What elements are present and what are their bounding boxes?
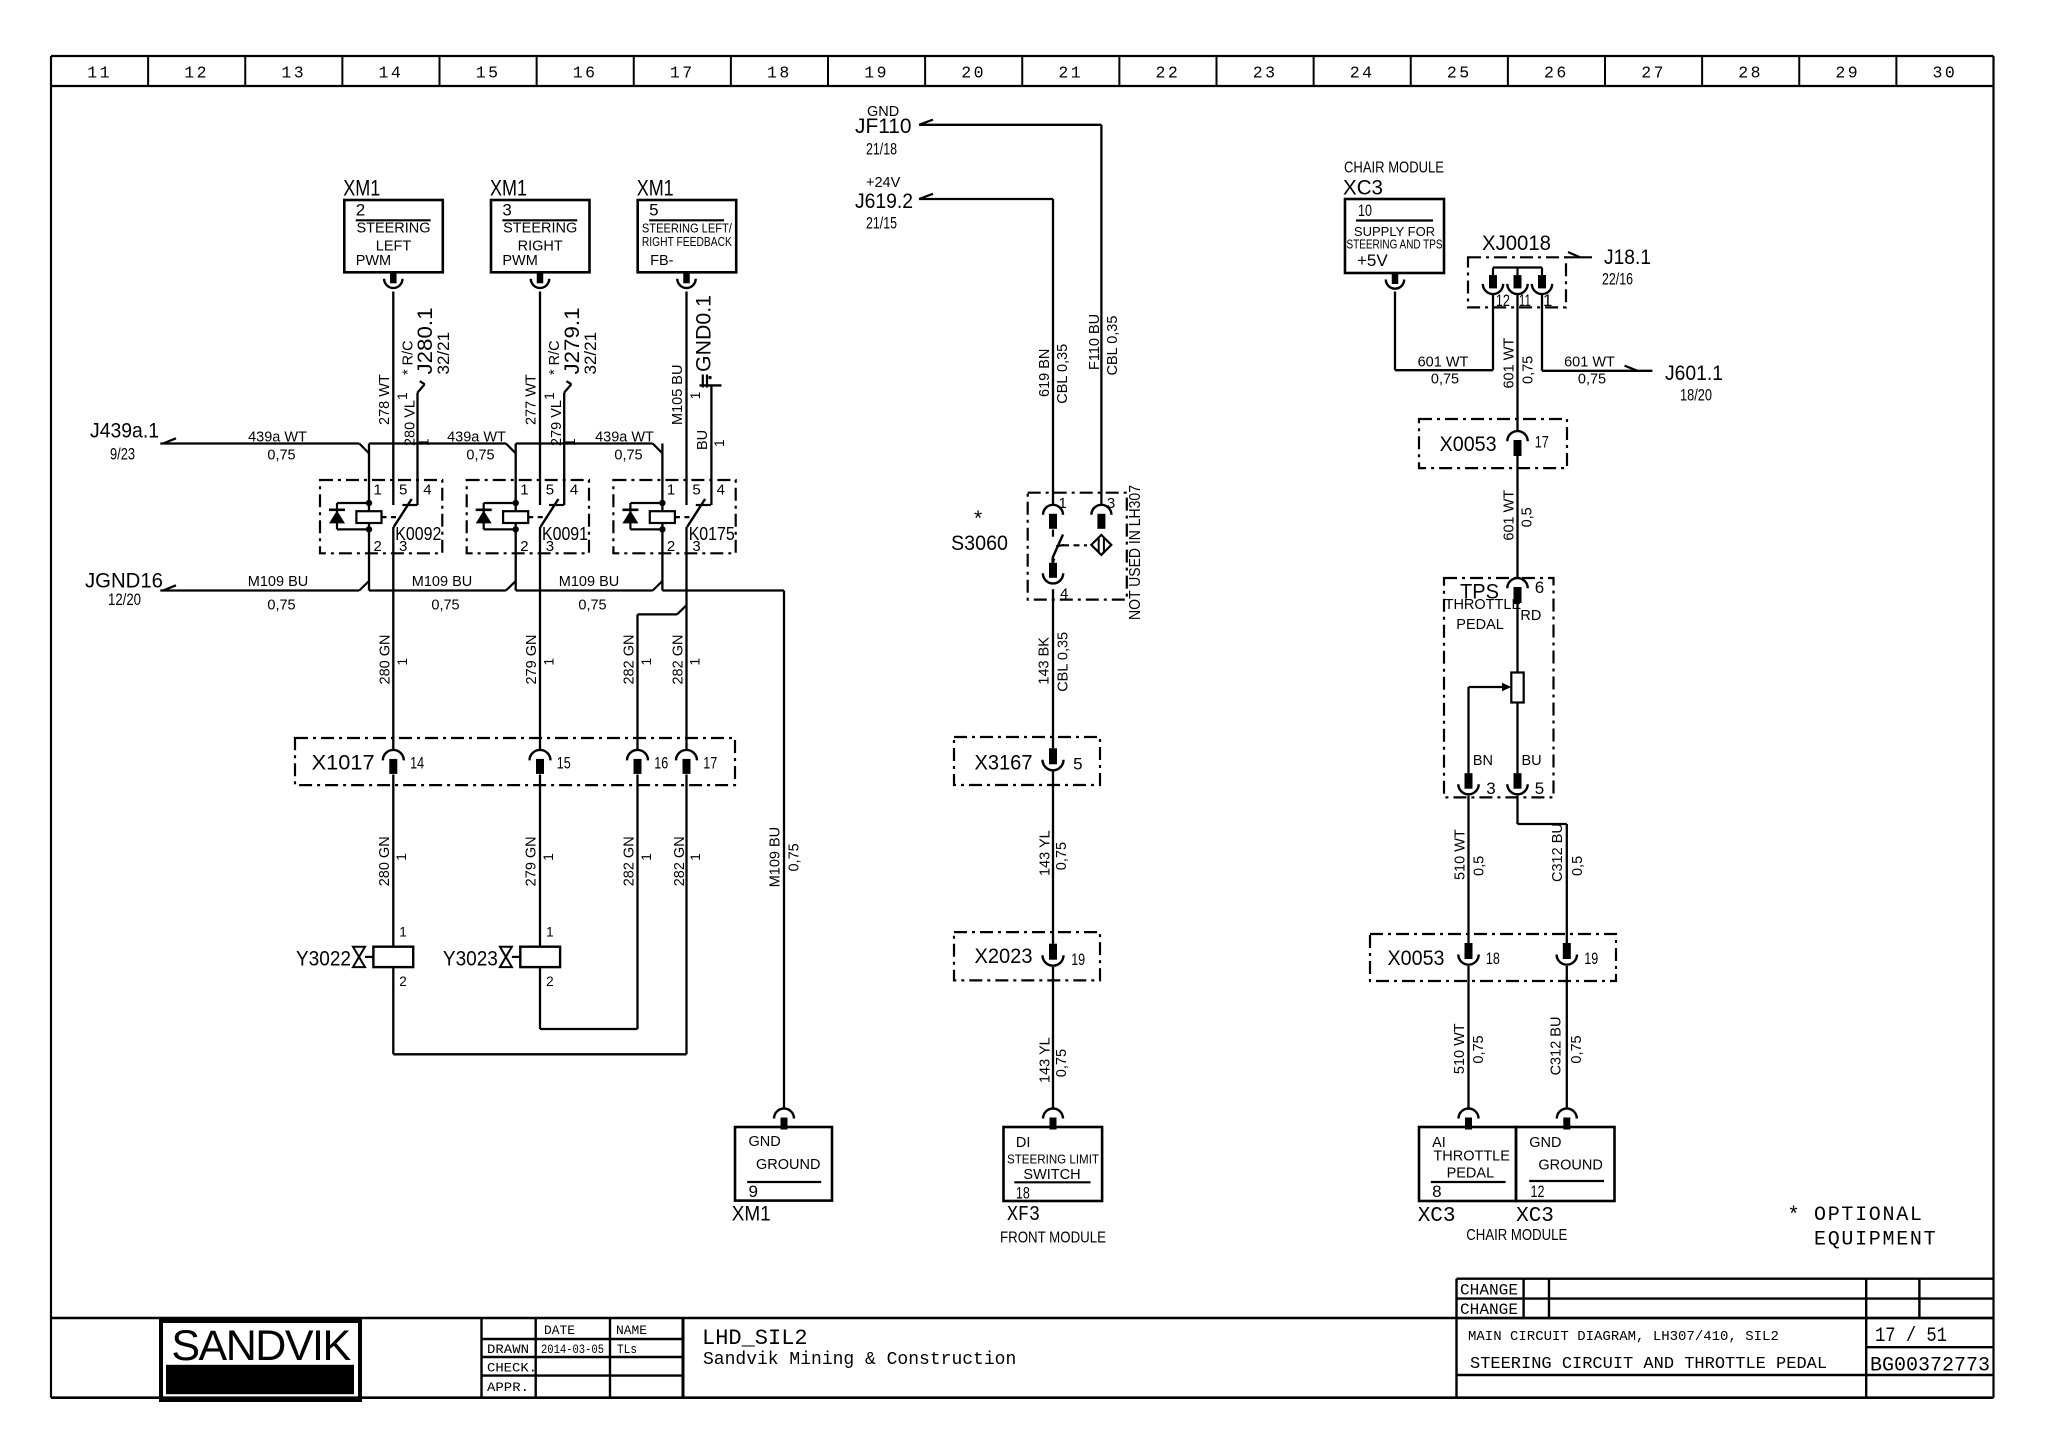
- svg-text:CHAIR MODULE: CHAIR MODULE: [1344, 160, 1444, 177]
- svg-text:280 GN: 280 GN: [377, 836, 393, 886]
- relay designator K0092: [395, 524, 441, 544]
- svg-text:22: 22: [1155, 64, 1180, 83]
- svg-text:STEERING AND TPS: STEERING AND TPS: [1347, 238, 1443, 252]
- relay K0175 pin 1 wire from 439a bus: [653, 444, 663, 512]
- switch S3060 contact blade: [1053, 530, 1065, 563]
- svg-text:M109 BU: M109 BU: [768, 827, 784, 887]
- svg-text:GROUND: GROUND: [756, 1157, 820, 1173]
- relay designator K0175: [689, 524, 735, 544]
- svg-text:8: 8: [1432, 1182, 1441, 1201]
- relay K0175 coil: [650, 500, 675, 554]
- svg-text:CBL 0,35: CBL 0,35: [1055, 632, 1071, 692]
- wire 601 WT (X0053.17 to TPS.6): [1501, 456, 1535, 578]
- connector X2023 (dash-dot box): [954, 932, 1100, 980]
- svg-text:510 WT: 510 WT: [1452, 1023, 1468, 1074]
- svg-text:439a WT: 439a WT: [595, 429, 654, 445]
- svg-text:THROTTLE: THROTTLE: [1433, 1149, 1510, 1165]
- relay K0092 enclosure (dash-dot box): [320, 480, 442, 553]
- wire M105 BU (XM1.5 to K0175.5): [670, 292, 703, 506]
- svg-text:NAME: NAME: [616, 1323, 647, 1338]
- svg-text:Y3022: Y3022: [296, 948, 351, 971]
- svg-text:1: 1: [1059, 495, 1067, 512]
- module XC3 box (10 SUPPLY FOR STEERING AND TPS +5V): [1343, 177, 1444, 274]
- wire 282 GN (X1017.16 down): [622, 775, 654, 1030]
- svg-text:5: 5: [399, 482, 407, 499]
- svg-text:17: 17: [670, 64, 695, 83]
- svg-text:XM1: XM1: [490, 176, 527, 201]
- socket pin at XC3 throttle input: [1459, 1109, 1479, 1130]
- svg-text:DI: DI: [1016, 1135, 1031, 1151]
- svg-text:4: 4: [423, 482, 431, 499]
- svg-text:0,75: 0,75: [1054, 1049, 1070, 1077]
- label 439a WT 0,75 segment 2: [447, 429, 506, 463]
- connector X1017 pin 17: [676, 750, 717, 774]
- svg-text:NOT USED IN LH307: NOT USED IN LH307: [1127, 485, 1144, 620]
- wire M109 BU bus with arrow: [160, 585, 784, 590]
- svg-text:17: 17: [1535, 433, 1549, 452]
- svg-text:1: 1: [395, 658, 410, 666]
- svg-text:M105 BU: M105 BU: [670, 365, 686, 425]
- svg-text:0,5: 0,5: [1520, 507, 1536, 527]
- svg-text:GND0.1: GND0.1: [693, 295, 716, 372]
- svg-text:K0091: K0091: [542, 524, 588, 544]
- connector X1017 pin 14: [383, 750, 424, 774]
- svg-text:1: 1: [374, 482, 382, 499]
- net label J439a.1: [90, 420, 159, 464]
- connector X1017 pin 16: [627, 750, 668, 774]
- label M109 BU 0,75 segment 2: [412, 574, 472, 614]
- svg-text:5: 5: [1535, 779, 1544, 798]
- svg-text:12: 12: [184, 64, 209, 83]
- svg-text:CBL 0,35: CBL 0,35: [1055, 344, 1071, 404]
- label M109 BU 0,75 segment 3: [559, 574, 619, 614]
- vertical note NOT USED IN LH307: [1127, 485, 1144, 620]
- module designator XF3: [1007, 1204, 1040, 1227]
- svg-text:FRONT MODULE: FRONT MODULE: [1000, 1230, 1106, 1247]
- svg-text:APPR.: APPR.: [487, 1380, 529, 1395]
- module XM1 ground box (GND GROUND 9): [732, 1127, 832, 1226]
- svg-text:17: 17: [703, 754, 717, 773]
- svg-text:RIGHT: RIGHT: [518, 238, 563, 254]
- svg-text:SANDVIK: SANDVIK: [171, 1322, 351, 1370]
- relay K0092 contact blade and pin 4 stub: [394, 499, 418, 527]
- svg-text:MAIN CIRCUIT DIAGRAM, LH307/41: MAIN CIRCUIT DIAGRAM, LH307/410, SIL2: [1468, 1329, 1779, 1345]
- svg-text:M109 BU: M109 BU: [412, 574, 472, 590]
- svg-text:+5V: +5V: [1357, 251, 1388, 270]
- svg-text:619 BN: 619 BN: [1037, 349, 1053, 397]
- wire 282 GN (K0175.3 to X1017.17): [671, 527, 703, 750]
- svg-text:1: 1: [639, 658, 654, 666]
- label * S3060: [951, 507, 1008, 555]
- svg-text:1: 1: [542, 658, 557, 666]
- svg-text:*: *: [1787, 1205, 1800, 1228]
- reference arrow J280.1 (wire 280 VL to relay pin 4): [400, 308, 453, 506]
- module XM1 pin 3 box (STEERING RIGHT): [490, 176, 590, 273]
- svg-text:13: 13: [281, 64, 306, 83]
- svg-text:282 GN: 282 GN: [672, 836, 688, 886]
- svg-text:F110 BU: F110 BU: [1087, 314, 1103, 370]
- svg-text:1: 1: [541, 853, 556, 861]
- wire 601 WT (XJ0018.11 to X0053.17): [1502, 294, 1537, 432]
- connector XJ0018 pin 12: [1483, 275, 1510, 310]
- net label J619.2 (+24V): [855, 175, 913, 233]
- svg-text:18: 18: [1486, 949, 1500, 968]
- wire Y3022.2 return to X1017.17 (282 GN): [393, 967, 686, 1054]
- switch S3060 pin 3: [1091, 495, 1115, 529]
- ruler column numbers 11-30: [87, 56, 1957, 86]
- label FRONT MODULE: [1000, 1230, 1106, 1247]
- svg-text:GND: GND: [749, 1134, 781, 1150]
- wire 601 WT (XJ0018.1 to J601.1) with arrow: [1542, 294, 1652, 388]
- svg-text:0,75: 0,75: [786, 843, 802, 871]
- svg-text:2: 2: [520, 538, 528, 555]
- svg-text:XJ0018: XJ0018: [1482, 232, 1551, 255]
- wire BU (GND0.1 to K0175.4): [695, 385, 727, 505]
- solenoid valve Y3023: [443, 925, 560, 990]
- connector X0053 pin 18: [1458, 943, 1500, 968]
- svg-text:25: 25: [1447, 64, 1472, 83]
- svg-text:1: 1: [399, 925, 407, 940]
- svg-text:2: 2: [546, 974, 554, 989]
- svg-text:10: 10: [1358, 201, 1372, 220]
- svg-text:1: 1: [687, 658, 702, 666]
- svg-text:DRAWN: DRAWN: [487, 1342, 529, 1357]
- svg-text:1: 1: [546, 925, 554, 940]
- svg-text:OPTIONAL: OPTIONAL: [1814, 1204, 1924, 1227]
- svg-text:280 GN: 280 GN: [378, 635, 394, 685]
- svg-text:PEDAL: PEDAL: [1456, 617, 1504, 633]
- svg-text:26: 26: [1544, 64, 1569, 83]
- wire 282 GN branch (K0175.3 to X1017.16): [622, 605, 687, 750]
- svg-text:15: 15: [557, 754, 571, 773]
- label 439a WT 0,75 segment 1: [248, 429, 307, 463]
- drawn/check table: [482, 1318, 684, 1398]
- relay K0092 pin numbers: [374, 482, 432, 556]
- svg-text:STEERING: STEERING: [356, 221, 430, 237]
- svg-text:143 YL: 143 YL: [1037, 1037, 1053, 1083]
- svg-text:601 WT: 601 WT: [1502, 338, 1518, 389]
- svg-text:9: 9: [749, 1182, 758, 1201]
- label M109 BU 0,75 segment 1: [248, 574, 308, 614]
- relay K0091 contact blade and pin 4 stub: [540, 499, 564, 527]
- solenoid valve Y3022: [296, 925, 413, 990]
- connector X3167 pin 5: [1043, 748, 1083, 773]
- net label JGND16: [85, 570, 163, 610]
- switch S3060 actuator link dashes: [1063, 544, 1087, 546]
- svg-text:1: 1: [688, 853, 703, 861]
- labels BN BU inside TPS: [1473, 753, 1542, 769]
- svg-text:K0175: K0175: [689, 524, 735, 544]
- svg-text:19: 19: [1071, 950, 1085, 969]
- svg-text:CHANGE: CHANGE: [1460, 1301, 1518, 1319]
- svg-text:CHANGE: CHANGE: [1460, 1282, 1518, 1300]
- relay K0175 pin numbers: [667, 482, 725, 556]
- svg-text:11: 11: [1519, 291, 1531, 310]
- svg-text:439a WT: 439a WT: [248, 429, 307, 445]
- svg-text:1: 1: [712, 439, 727, 447]
- svg-text:601 WT: 601 WT: [1564, 354, 1615, 370]
- svg-text:279 GN: 279 GN: [524, 836, 540, 886]
- switch S3060 pin 1: [1043, 495, 1067, 529]
- svg-text:J18.1: J18.1: [1604, 246, 1651, 269]
- svg-text:JF110: JF110: [855, 115, 912, 138]
- svg-text:0,5: 0,5: [1570, 856, 1586, 876]
- svg-text:16: 16: [573, 64, 598, 83]
- svg-text:Sandvik Mining & Construction: Sandvik Mining & Construction: [703, 1350, 1016, 1370]
- label 439a WT 0,75 segment 3: [595, 429, 654, 463]
- svg-text:17 / 51: 17 / 51: [1875, 1325, 1947, 1348]
- svg-text:1: 1: [667, 482, 675, 499]
- svg-text:XM1: XM1: [343, 176, 380, 201]
- connector X3167 (dash-dot box): [954, 737, 1100, 785]
- socket pin at XF3 module: [1043, 1109, 1063, 1130]
- svg-text:29: 29: [1835, 64, 1860, 83]
- wire 277 WT (XM1.3 to K0091.5): [524, 292, 557, 506]
- relay K0092 pin 1 wire from 439a bus: [359, 444, 369, 512]
- svg-text:STEERING LIMIT: STEERING LIMIT: [1007, 1152, 1099, 1167]
- svg-text:CHAIR MODULE: CHAIR MODULE: [1466, 1227, 1567, 1244]
- relay designator K0091: [542, 524, 588, 544]
- svg-text:11: 11: [87, 64, 112, 83]
- connector X0053 pin 19: [1557, 943, 1599, 968]
- svg-text:3: 3: [1107, 495, 1115, 512]
- svg-text:14: 14: [410, 754, 424, 773]
- svg-text:1: 1: [417, 438, 432, 446]
- svg-text:18: 18: [1016, 1184, 1030, 1203]
- module XC3 box (GND GROUND 12): [1516, 1127, 1615, 1201]
- connector pin under XC3 supply box: [1386, 273, 1404, 289]
- wire 279 GN (K0091.3 to X1017.15): [524, 527, 556, 750]
- svg-text:GND: GND: [1529, 1135, 1561, 1151]
- svg-text:282 GN: 282 GN: [622, 635, 638, 685]
- wire 510 WT (X0053.18 to XC3.8): [1452, 966, 1487, 1109]
- connector X1017 pin 15: [530, 750, 571, 774]
- labels THROTTLE PEDAL RD: [1445, 597, 1542, 633]
- svg-text:1: 1: [394, 853, 409, 861]
- svg-text:STEERING: STEERING: [503, 221, 577, 237]
- svg-text:5: 5: [1073, 755, 1082, 774]
- svg-text:19: 19: [1584, 949, 1598, 968]
- socket pin at XC3 ground: [1557, 1109, 1577, 1130]
- svg-text:143 YL: 143 YL: [1037, 830, 1053, 876]
- switch S3060 enclosure (dash-dot box): [1028, 493, 1127, 600]
- svg-text:CBL 0,35: CBL 0,35: [1105, 316, 1121, 376]
- svg-text:XM1: XM1: [637, 176, 674, 201]
- svg-text:19: 19: [864, 64, 889, 83]
- note * OPTIONAL EQUIPMENT: [1787, 1204, 1937, 1252]
- svg-text:12: 12: [1496, 291, 1510, 310]
- svg-text:2014-03-05: 2014-03-05: [541, 1342, 604, 1357]
- connector X0053 lower (dash-dot box): [1370, 934, 1616, 981]
- potentiometer track TPS: [1511, 603, 1523, 773]
- module XF3 box (DI STEERING LIMIT SWITCH 18): [1004, 1127, 1103, 1203]
- svg-text:+24V: +24V: [866, 175, 901, 191]
- wire 439a WT bus with arrow: [160, 438, 652, 443]
- connector XJ0018 (dash-dot box): [1468, 232, 1566, 307]
- svg-text:S3060: S3060: [951, 532, 1008, 555]
- svg-text:GROUND: GROUND: [1538, 1158, 1602, 1174]
- switch S3060 pin 4: [1043, 559, 1069, 603]
- svg-text:510 WT: 510 WT: [1452, 829, 1468, 880]
- relay K0092 mechanical link dashes: [382, 516, 402, 518]
- svg-text:4: 4: [717, 482, 725, 499]
- svg-text:0,75: 0,75: [1054, 842, 1070, 870]
- connector pin symbol under XM1 3: [531, 272, 549, 288]
- svg-text:282 GN: 282 GN: [622, 836, 638, 886]
- svg-text:EQUIPMENT: EQUIPMENT: [1814, 1229, 1937, 1252]
- wire Y3023.2 return to X1017.16 (282 GN): [540, 967, 638, 1029]
- connector X1017 (dash-dot box): [295, 738, 735, 785]
- svg-text:1: 1: [542, 392, 557, 400]
- relay K0091 pin 2 wire to M109 bus: [506, 553, 516, 590]
- svg-text:15: 15: [476, 64, 501, 83]
- svg-text:XM1: XM1: [732, 1203, 771, 1226]
- svg-text:STEERING CIRCUIT AND THROTTLE: STEERING CIRCUIT AND THROTTLE PEDAL: [1470, 1355, 1827, 1374]
- sensor TPS pin 5: [1507, 773, 1544, 798]
- svg-text:0,75: 0,75: [1431, 371, 1459, 387]
- relay K0175 contact blade and pin 4 stub: [687, 499, 711, 527]
- connector XJ0018 pin 11: [1507, 275, 1531, 310]
- reference arrow J279.1 (wire 279 VL to relay pin 4): [547, 308, 600, 506]
- svg-text:1: 1: [688, 392, 703, 400]
- svg-text:22/16: 22/16: [1602, 270, 1633, 289]
- wire 601 WT (XC3 to XJ0018.12): [1395, 292, 1493, 388]
- svg-text:XF3: XF3: [1007, 1204, 1040, 1227]
- svg-text:2: 2: [399, 974, 407, 989]
- svg-text:0,75: 0,75: [267, 598, 295, 614]
- svg-text:32/21: 32/21: [434, 332, 453, 375]
- svg-text:32/21: 32/21: [581, 332, 600, 375]
- label CHAIR MODULE (bottom): [1466, 1227, 1567, 1244]
- svg-text:Y3023: Y3023: [443, 948, 498, 971]
- svg-text:RD: RD: [1520, 608, 1541, 624]
- svg-text:5: 5: [546, 482, 554, 499]
- svg-text:601 WT: 601 WT: [1501, 490, 1517, 541]
- svg-text:1: 1: [639, 853, 654, 861]
- svg-text:18: 18: [767, 64, 792, 83]
- svg-text:0,75: 0,75: [1578, 371, 1606, 387]
- svg-text:TLs: TLs: [617, 1342, 637, 1357]
- svg-text:3: 3: [502, 201, 511, 220]
- svg-text:PWM: PWM: [502, 253, 537, 269]
- svg-text:X0053: X0053: [1388, 947, 1445, 970]
- wire 143 YL (X3167.5 to X2023.19): [1037, 772, 1070, 944]
- module XC3 box (AI THROTTLE PEDAL 8): [1419, 1127, 1516, 1201]
- svg-text:0,75: 0,75: [1569, 1035, 1585, 1063]
- relay K0175 mechanical link dashes: [675, 516, 695, 518]
- sensor TPS pin 6: [1507, 578, 1544, 603]
- svg-text:1: 1: [395, 392, 410, 400]
- module designators XC3 XC3: [1418, 1205, 1554, 1228]
- svg-text:30: 30: [1932, 64, 1957, 83]
- wire C312 BU (X0053.19 to XC3.12): [1548, 966, 1585, 1109]
- svg-text:LEFT: LEFT: [376, 238, 412, 254]
- svg-text:23: 23: [1253, 64, 1278, 83]
- wire 510 WT (TPS.3 to X0053.18): [1452, 796, 1487, 943]
- svg-text:0,75: 0,75: [431, 598, 459, 614]
- svg-text:PEDAL: PEDAL: [1447, 1166, 1495, 1182]
- module XM1 pin 5 box (STEERING LEFT/ RIGHT FEEDBACK): [637, 176, 737, 273]
- svg-text:X3167: X3167: [975, 752, 1033, 775]
- svg-text:BU: BU: [695, 430, 711, 450]
- relay K0092 coil: [356, 500, 381, 554]
- svg-text:X2023: X2023: [975, 945, 1033, 968]
- label CHAIR MODULE (top): [1344, 160, 1444, 177]
- wire 280 GN (K0092.3 to X1017.14): [378, 527, 410, 750]
- svg-text:278 WT: 278 WT: [377, 374, 393, 425]
- svg-text:28: 28: [1738, 64, 1763, 83]
- relay K0091 pin numbers: [520, 482, 578, 556]
- wire 282 GN (X1017.17 down): [672, 775, 703, 1055]
- relay K0091 coil: [503, 500, 528, 554]
- svg-text:0,75: 0,75: [1471, 1035, 1487, 1063]
- sensor TPS THROTTLE PEDAL enclosure (dash-dot box): [1444, 578, 1554, 797]
- wire 619 BN from J619.2: [919, 194, 1071, 505]
- title text LHD_SIL2 / Sandvik Mining & Construction: [702, 1326, 1016, 1370]
- svg-text:14: 14: [378, 64, 403, 83]
- svg-text:BG00372773: BG00372773: [1870, 1355, 1990, 1378]
- svg-text:16: 16: [654, 754, 668, 773]
- svg-text:C312 BU: C312 BU: [1550, 823, 1566, 882]
- svg-text:M109 BU: M109 BU: [559, 574, 619, 590]
- svg-text:J439a.1: J439a.1: [90, 420, 159, 443]
- svg-text:2: 2: [667, 538, 675, 555]
- svg-text:FB-: FB-: [650, 253, 674, 269]
- svg-text:21/18: 21/18: [866, 140, 897, 159]
- sensor TPS pin 3: [1458, 773, 1495, 798]
- svg-text:XC3: XC3: [1516, 1205, 1554, 1228]
- wire 279 GN (X1017.15 to Y3023.1): [524, 775, 556, 947]
- svg-text:12/20: 12/20: [108, 590, 141, 609]
- svg-text:143 BK: 143 BK: [1037, 637, 1053, 685]
- svg-text:4: 4: [1060, 586, 1068, 603]
- svg-text:282 GN: 282 GN: [671, 635, 687, 685]
- relay K0092 pin 2 wire to M109 bus: [359, 553, 369, 590]
- relay K0091 mechanical link dashes: [528, 516, 548, 518]
- svg-text:K0092: K0092: [395, 524, 441, 544]
- svg-text:0,75: 0,75: [466, 448, 494, 464]
- svg-text:THROTTLE: THROTTLE: [1445, 597, 1522, 613]
- svg-text:LHD_SIL2: LHD_SIL2: [702, 1326, 808, 1351]
- potentiometer wiper arrow: [1469, 683, 1512, 773]
- connector XJ0018 pin 1: [1532, 275, 1553, 310]
- wire 278 WT (XM1.2 to K0092.5): [377, 292, 410, 506]
- svg-text:439a WT: 439a WT: [447, 429, 506, 445]
- svg-text:601 WT: 601 WT: [1418, 354, 1469, 370]
- svg-text:5: 5: [692, 482, 700, 499]
- svg-text:CHECK.: CHECK.: [487, 1361, 537, 1376]
- title block frame: [51, 1318, 1994, 1398]
- svg-text:0,75: 0,75: [614, 448, 642, 464]
- relay K0175 suppressor diode: [622, 503, 662, 529]
- relay K0175 pin 2 wire to M109 bus: [653, 553, 663, 590]
- wire M109 BU (bus to XM1 ground): [768, 591, 803, 1109]
- relay K0091 suppressor diode: [476, 503, 516, 529]
- svg-text:BN: BN: [1473, 753, 1493, 769]
- net label JF110 (GND): [855, 104, 912, 159]
- svg-text:9/23: 9/23: [110, 445, 135, 464]
- svg-text:21/15: 21/15: [866, 214, 897, 233]
- net reference GND0.1 symbol: [693, 295, 722, 388]
- relay K0091 enclosure (dash-dot box): [467, 480, 589, 553]
- connector pin symbol under XM1 2: [384, 272, 402, 288]
- svg-text:J601.1: J601.1: [1665, 362, 1723, 385]
- svg-text:*: *: [974, 507, 982, 530]
- svg-text:XC3: XC3: [1418, 1205, 1456, 1228]
- svg-text:BU: BU: [1522, 753, 1542, 769]
- relay K0175 enclosure (dash-dot box): [613, 480, 735, 553]
- wire 143 BK (S3060.4 to X3167.5): [1037, 589, 1072, 748]
